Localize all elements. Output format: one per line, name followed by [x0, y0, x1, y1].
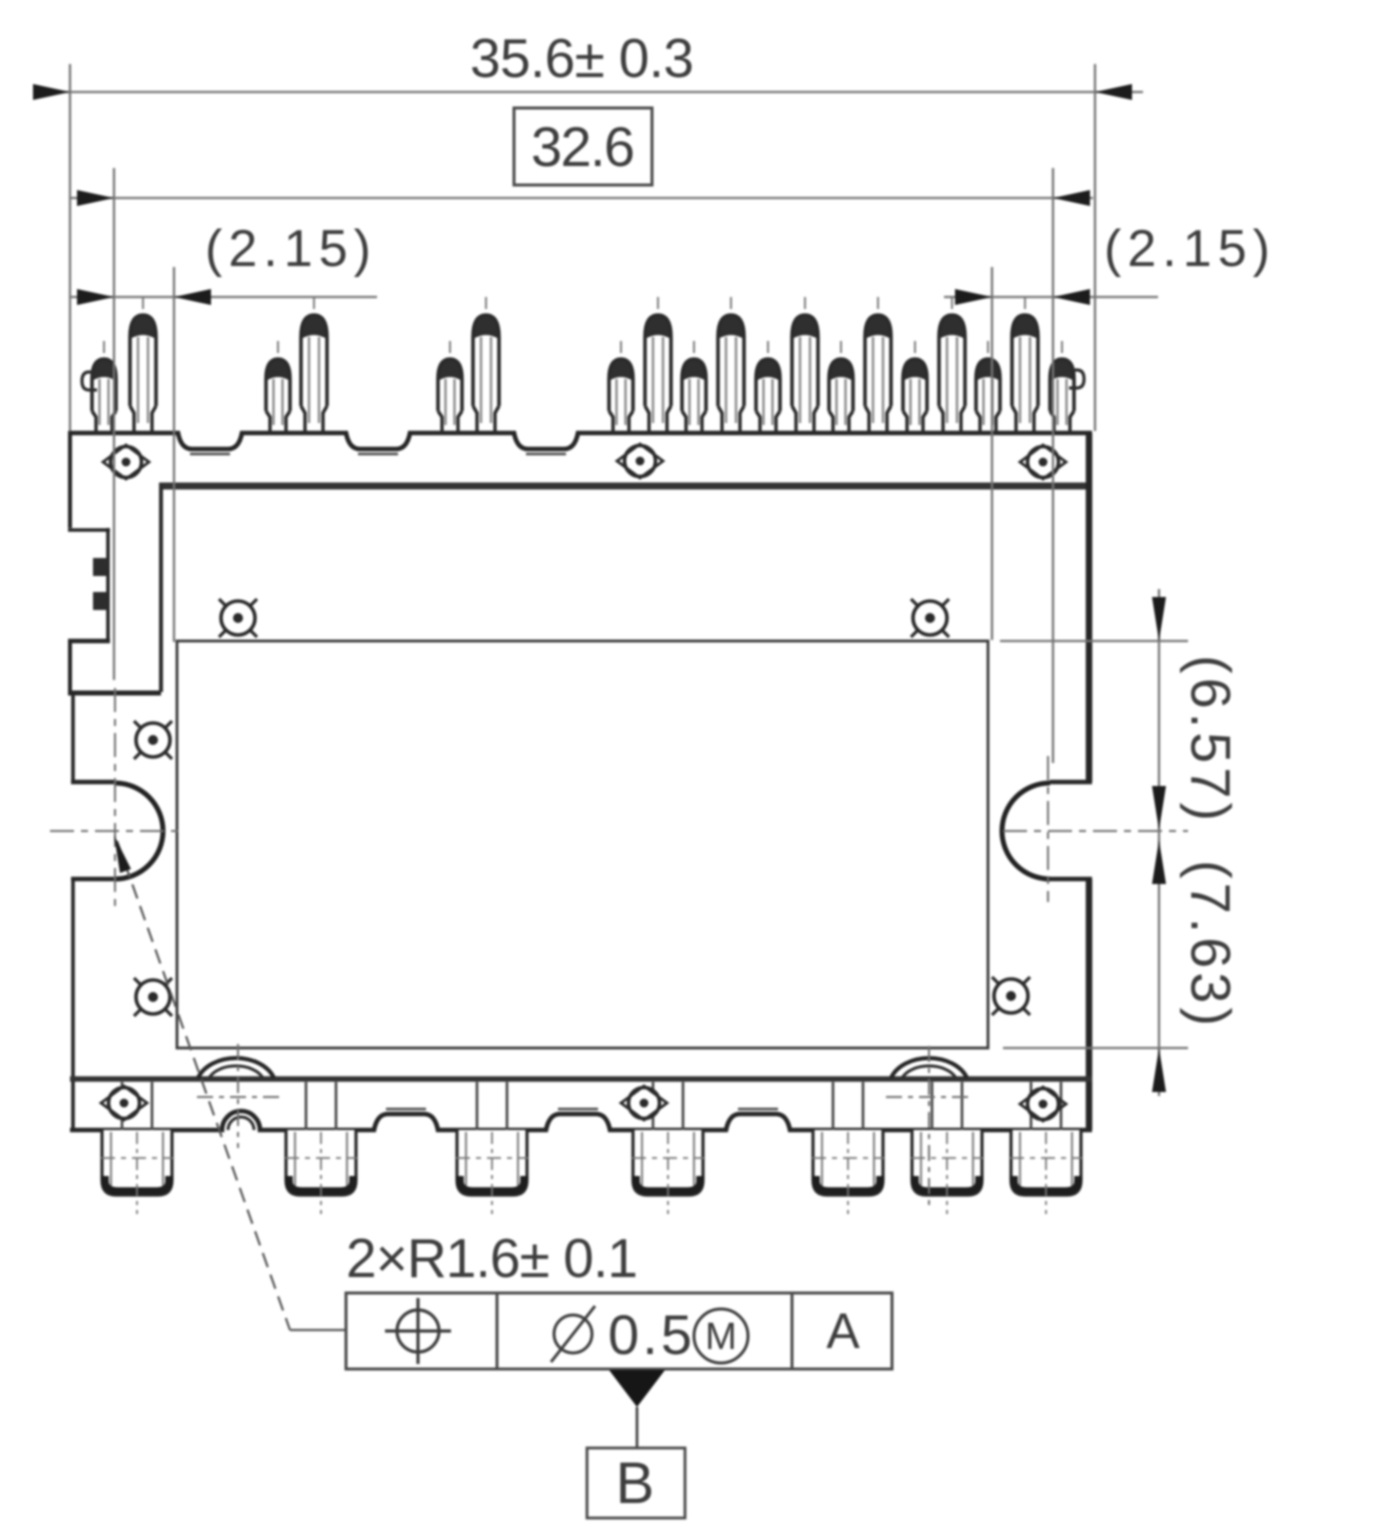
screw mark inner mid-left — [134, 721, 172, 759]
arrow 7.63 bottom — [1152, 1048, 1166, 1092]
arrow 7.63 top — [1152, 840, 1166, 884]
top pin group C short — [438, 359, 462, 434]
arrow 2.15 left b — [174, 289, 211, 305]
top pin group C tall — [473, 315, 499, 434]
left mount dome inner — [209, 1066, 263, 1078]
screw mark flange top-left — [103, 445, 149, 479]
feature control frame — [346, 1293, 892, 1369]
screw mark flange top-right — [1020, 445, 1066, 479]
right cutout bottom lip — [1050, 877, 1092, 881]
leader bend to frame — [290, 1329, 346, 1331]
datum feature triangle — [609, 1370, 665, 1407]
frame divider 1 — [496, 1293, 499, 1369]
right edge lower — [1086, 879, 1093, 1130]
position symbol — [385, 1298, 451, 1364]
svg-text:(2.15): (2.15) — [1104, 220, 1270, 278]
top pin group B tall — [301, 315, 327, 434]
screw mark inner bottom-right — [992, 977, 1030, 1015]
left mount dome — [198, 1058, 274, 1078]
top pin centerline ticks — [104, 297, 1062, 353]
centerlines — [50, 688, 1188, 1207]
left inner wall — [159, 485, 163, 692]
bottom pin 5 — [813, 1082, 883, 1214]
arrow 2.15 right a — [955, 289, 992, 305]
left mount vertical centerline — [237, 1044, 239, 1148]
extension line 35.6 left — [69, 64, 71, 431]
extension line 32.6 left — [113, 168, 115, 680]
top notch lip lines — [190, 453, 566, 456]
bottom flange top heavy line — [70, 1076, 1092, 1082]
nub right of last pin — [1069, 370, 1084, 388]
left edge lower — [71, 879, 75, 1130]
bottom pin 7 — [1011, 1082, 1081, 1214]
extension line 32.6 right — [1052, 168, 1054, 763]
left internal shelf — [68, 691, 161, 696]
dimension line 2.15 right — [944, 296, 1158, 298]
svg-text:(2.15): (2.15) — [205, 220, 371, 278]
left cutout bottom lip — [71, 877, 115, 881]
dimension line vertical 6.57 7.63 — [1158, 589, 1160, 1096]
right mount vertical centerline — [928, 1046, 930, 1207]
datum stem — [636, 1407, 639, 1449]
top pin dense group — [609, 315, 1074, 434]
bottom pin 6 — [912, 1082, 982, 1214]
svg-text:B: B — [616, 1451, 655, 1516]
extension line 35.6 right — [1094, 64, 1096, 431]
top pin group B short — [266, 359, 290, 434]
left step out — [68, 639, 110, 643]
inner rectangle — [177, 641, 988, 1048]
MMC modifier symbol — [694, 1309, 748, 1363]
extension line 7.63 bottom — [1003, 1047, 1188, 1049]
screw mark flange bottom-left — [101, 1086, 147, 1120]
dimension line 32.6 — [70, 197, 1093, 199]
screw mark flange bottom-mid — [621, 1086, 667, 1120]
top pin group A short — [92, 359, 116, 434]
right mount dome inner — [902, 1066, 956, 1078]
screw mark inner top-right — [911, 599, 949, 637]
left outer edge mid — [68, 641, 72, 692]
left cutout vertical centerline — [114, 688, 116, 908]
right cutout vertical centerline — [1047, 756, 1049, 902]
arrow 32.6 left — [77, 190, 114, 206]
extension line 2.15 right — [991, 267, 993, 640]
left edge bump 1 — [93, 558, 108, 576]
right cutout arc R1.6 — [1002, 783, 1050, 879]
top pin group A tall — [130, 315, 156, 434]
frame divider 2 — [791, 1293, 794, 1369]
diameter symbol — [551, 1306, 595, 1362]
right cutout horizontal centerline — [1003, 830, 1188, 832]
left mount arch inner — [228, 1117, 254, 1130]
right mount dome — [891, 1058, 967, 1078]
dimension line 35.6 — [33, 91, 1143, 93]
arrow 6.57 top — [1152, 597, 1166, 641]
leader line from cutout center — [117, 841, 290, 1330]
dimension line 2.15 left — [70, 296, 377, 298]
left cutout horizontal centerline — [50, 830, 178, 832]
extension line 6.57 top — [1000, 640, 1188, 642]
left outer edge upper — [68, 431, 72, 528]
left cutout top lip — [71, 780, 115, 784]
basic dimension box 32.6 — [514, 108, 652, 185]
bottom edge with notches and arch — [70, 1111, 1092, 1130]
left mount horizontal centerline — [197, 1096, 280, 1098]
bottom pin 1 — [102, 1082, 172, 1214]
left recessed edge — [106, 528, 110, 641]
bottom pin horizontal centerline dashes — [101, 1157, 1082, 1159]
extension line 2.15 left — [173, 267, 175, 642]
bottom pin 4 — [633, 1082, 703, 1214]
nub left of first pin — [82, 372, 97, 390]
svg-text:35.6± 0.3: 35.6± 0.3 — [470, 27, 694, 89]
bottom notch lip lines — [386, 1108, 778, 1111]
screw mark flange top-mid — [617, 444, 663, 478]
right mount horizontal centerline — [886, 1096, 968, 1098]
datum box B — [587, 1448, 685, 1518]
arrow 32.6 right — [1053, 190, 1090, 206]
left edge above cutout — [71, 693, 75, 783]
left step ledge — [68, 528, 110, 532]
svg-text:0.5: 0.5 — [608, 1303, 692, 1366]
svg-text:2×R1.6± 0.1: 2×R1.6± 0.1 — [346, 1227, 638, 1289]
arrow 35.6 left — [33, 84, 70, 100]
right cutout top lip — [1050, 780, 1092, 784]
svg-text:(6.57): (6.57) — [1180, 655, 1243, 821]
leader arrowhead — [114, 835, 131, 873]
svg-text:A: A — [826, 1303, 860, 1359]
left edge bump 2 — [93, 592, 108, 610]
bottom pin 2 — [286, 1082, 356, 1214]
right edge upper — [1086, 433, 1093, 782]
inner top heavy line — [159, 483, 1092, 490]
bottom pin 3 — [457, 1082, 527, 1214]
screw mark inner bottom-left — [134, 978, 172, 1016]
package top edge with notches — [70, 433, 1092, 449]
svg-text:M: M — [705, 1316, 737, 1358]
screw mark inner top-left — [219, 599, 257, 637]
screw mark flange bottom-right — [1020, 1087, 1066, 1121]
svg-text:32.6: 32.6 — [531, 115, 635, 178]
arrow 2.15 left a — [77, 289, 114, 305]
arrow 2.15 right b — [1053, 289, 1090, 305]
left cutout arc R1.6 — [115, 783, 163, 879]
arrow 6.57 bottom — [1152, 786, 1166, 830]
svg-text:(7.63): (7.63) — [1180, 860, 1243, 1026]
arrow 35.6 right — [1095, 84, 1132, 100]
